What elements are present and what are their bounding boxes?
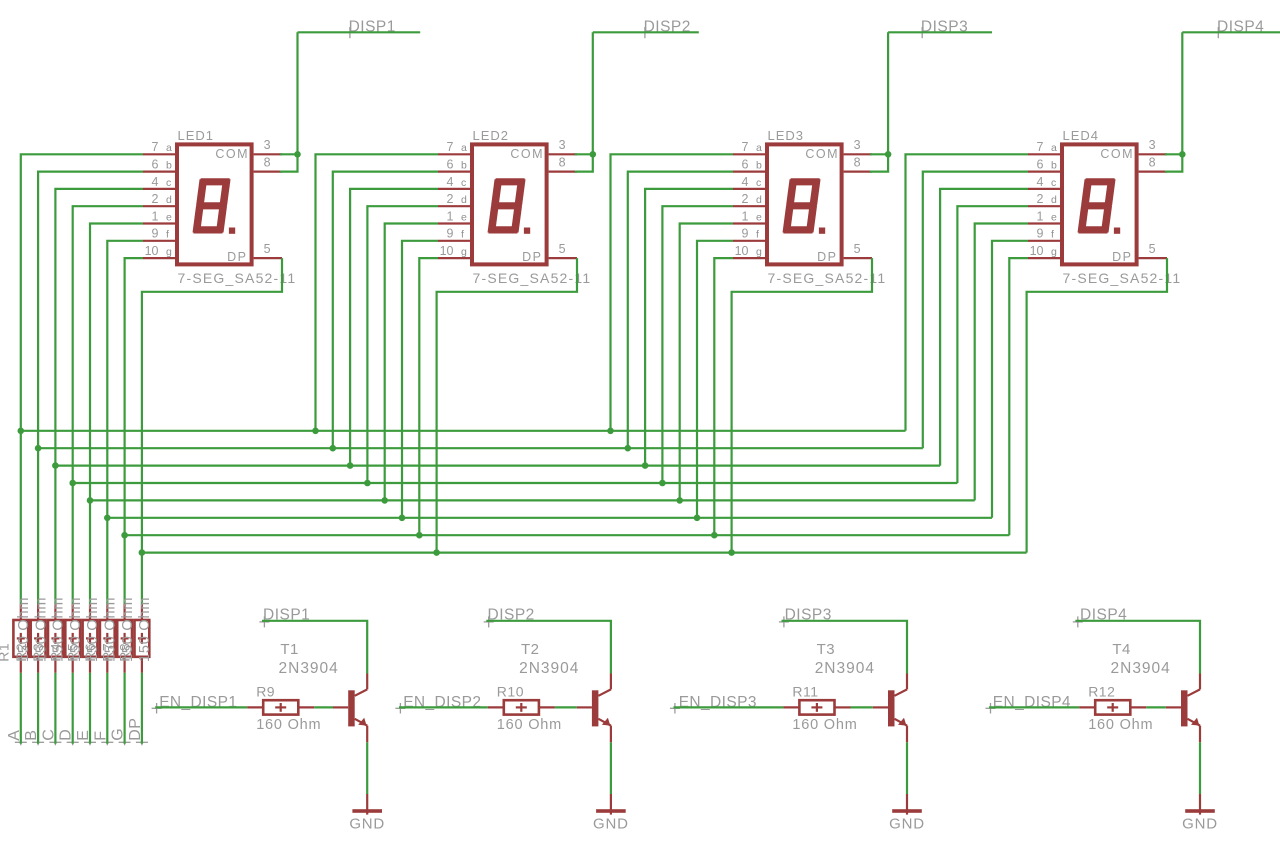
7-segment display LED1 body (7-SEG_SA52-11) (177, 144, 252, 264)
7-segment display LED4 body (7-SEG_SA52-11) (1062, 144, 1137, 264)
svg-text:c: c (461, 177, 466, 189)
wire net C: bus up to LED4 pin c (940, 189, 1028, 466)
svg-text:6: 6 (1037, 158, 1044, 172)
label T3 (817, 641, 836, 658)
svg-text:a: a (461, 142, 467, 154)
svg-text:3: 3 (264, 138, 271, 152)
svg-text:R2: R2 (13, 643, 29, 662)
svg-text:g: g (461, 246, 467, 258)
value 7-SEG_SA52-11 of LED2 (473, 270, 592, 286)
wire net DISP1: LED1 pin 8 up to junction (280, 154, 298, 171)
junction net E at LED2 branch (381, 497, 388, 504)
svg-text:DP: DP (227, 250, 247, 264)
pin name DP of LED4 (1112, 250, 1132, 264)
wire net B: bus up to LED3 pin b (628, 172, 733, 449)
label DISP1 (top net label with origin tick) (349, 18, 396, 38)
LED4 pin 1 (e) (1028, 209, 1060, 223)
wire net DISP3: top horizontal (888, 31, 992, 33)
resistor R9 (160 Ohm) (247, 700, 314, 714)
svg-text:GND: GND (1182, 815, 1218, 832)
junction net G at LED2 branch (416, 532, 423, 539)
svg-text:8: 8 (854, 155, 861, 169)
wire net DISP4: vertical up from junction (1181, 32, 1183, 154)
svg-text:8: 8 (559, 155, 566, 169)
label T1 (280, 641, 299, 658)
LED2 pin 10 (g) (438, 244, 470, 258)
svg-text:LED1: LED1 (178, 128, 215, 143)
junction net C at LED3 branch (642, 462, 649, 469)
LED2 pin 2 (d) (438, 192, 470, 206)
wire net F: horizontal bus line (107, 517, 992, 519)
svg-text:R10: R10 (497, 683, 524, 699)
svg-text:160 Ohm: 160 Ohm (1088, 717, 1153, 733)
wire net G: bus up to LED2 pin g (419, 258, 438, 535)
LED1 pin 2 (d) (143, 192, 175, 206)
svg-text:B: B (23, 730, 40, 741)
LED2 pin 5 (549, 242, 577, 258)
svg-text:C: C (40, 729, 57, 741)
svg-text:R4: R4 (47, 643, 63, 662)
junction net G at LED3 branch (711, 532, 718, 539)
wire net DISP4: top horizontal (1182, 31, 1280, 33)
LED1 pin 10 (g) (143, 244, 175, 258)
wire net D: bus up to LED2 pin d (367, 206, 438, 483)
label DISP3 (top net label with origin tick) (921, 18, 968, 38)
svg-text:F: F (92, 731, 109, 741)
wire net base of T3 (851, 706, 873, 708)
svg-text:DP: DP (1112, 250, 1132, 264)
svg-text:2N3904: 2N3904 (1111, 660, 1171, 677)
svg-text:R5: R5 (65, 643, 81, 662)
svg-text:a: a (166, 142, 172, 154)
ground symbol GND under T4 (1185, 794, 1215, 815)
LED3 pin 5 (844, 242, 872, 258)
wire net G: bus up to LED3 pin g (714, 258, 733, 535)
svg-text:1: 1 (447, 209, 454, 223)
value 7-SEG_SA52-11 of LED1 (178, 270, 297, 286)
wire net base of T2 (555, 706, 577, 708)
wire net DISP1: label to T1 collector (262, 621, 367, 674)
junction net E at left column (87, 497, 94, 504)
wire net D: resistor R4 to net stub (67, 673, 79, 746)
junction net DP at LED2 branch (433, 549, 440, 556)
wire net B: horizontal bus line (38, 447, 923, 449)
label EN_DISP1 (net label with origin cross) (152, 694, 238, 714)
wire net E: resistor R5 to net stub (84, 673, 96, 746)
7-segment display LED3 body (7-SEG_SA52-11) (767, 144, 842, 264)
svg-text:5: 5 (854, 242, 861, 256)
wire net DISP1: top horizontal (298, 31, 421, 33)
LED2 pin 3 (549, 138, 577, 154)
LED3 pin 10 (g) (733, 244, 765, 258)
wire net GND: T4 emitter to ground (1199, 742, 1201, 794)
svg-text:5: 5 (1149, 242, 1156, 256)
svg-text:c: c (166, 177, 171, 189)
resistor R2 (150 Ohm, vertical) (31, 604, 46, 673)
junction net A at LED3 branch (607, 428, 614, 435)
svg-text:7: 7 (742, 140, 749, 154)
svg-text:3: 3 (854, 138, 861, 152)
pin name COM of LED2 (510, 147, 544, 161)
wire net DISP1: vertical up from junction (296, 32, 298, 154)
value 150 Ohm of R3 (rotated) (51, 597, 67, 662)
value 150 Ohm of R4 (rotated) (68, 597, 84, 662)
LED4 pin 9 (f) (1028, 227, 1060, 241)
svg-text:10: 10 (440, 244, 454, 258)
svg-text:b: b (1051, 160, 1057, 172)
label R4 (rotated) (47, 643, 63, 662)
label E (rotated net label) (75, 730, 92, 741)
wire net base of T1 (314, 706, 333, 708)
LED1 pin 4 (c) (143, 175, 175, 189)
wire net A: resistor R1 to net stub (15, 673, 27, 746)
label T4 (1112, 641, 1131, 658)
LED3 pin 7 (a) (733, 140, 765, 154)
label DP (rotated net label) (127, 718, 144, 741)
wire net DP: horizontal bus line (142, 551, 1027, 553)
svg-text:3: 3 (559, 138, 566, 152)
label GND under T4 (1182, 815, 1218, 832)
value 160 Ohm of R11 (792, 717, 857, 733)
junction net E at LED3 branch (676, 497, 683, 504)
pin name COM of LED3 (805, 147, 839, 161)
svg-text:10: 10 (1030, 244, 1044, 258)
LED4 pin 3 (1139, 138, 1167, 154)
wire net C: bus up to LED3 pin c (645, 189, 733, 466)
svg-text:d: d (166, 194, 172, 206)
LED3 pin 8 (844, 155, 872, 171)
transistor T1 (2N3904 NPN) (333, 674, 367, 743)
junction net DISP4 at LED4 COM (1179, 151, 1186, 158)
junction net A at LED2 branch (312, 428, 319, 435)
value 160 Ohm of R10 (497, 717, 562, 733)
svg-text:LED2: LED2 (473, 128, 510, 143)
label DISP4 (top net label with origin tick) (1217, 18, 1264, 38)
LED4 pin 6 (b) (1028, 158, 1060, 172)
wire net G: horizontal bus line (125, 534, 1010, 536)
svg-text:10: 10 (145, 244, 159, 258)
junction net F at left column (104, 515, 111, 522)
transistor T2 (2N3904 NPN) (577, 674, 611, 743)
LED2 pin 7 (a) (438, 140, 470, 154)
wire net F: bus up to LED4 pin f (992, 241, 1028, 518)
label LED4 (part name) (1063, 128, 1100, 143)
LED4 pin 8 (1139, 155, 1167, 171)
wire net DISP3: vertical up from junction (887, 32, 889, 154)
LED4 pin 5 (1139, 242, 1167, 258)
wire net F: bus up to LED3 pin f (697, 241, 733, 518)
wire net DISP1: LED1 pin 3 to junction (280, 153, 298, 155)
svg-text:2: 2 (447, 192, 454, 206)
svg-text:f: f (166, 229, 169, 241)
resistor R3 (150 Ohm, vertical) (48, 604, 63, 673)
LED1 pin 9 (f) (143, 227, 175, 241)
svg-text:d: d (461, 194, 467, 206)
wire net DISP2: vertical up from junction (592, 32, 594, 154)
svg-text:LED4: LED4 (1063, 128, 1100, 143)
wire net D: bus up to LED3 pin d (662, 206, 733, 483)
svg-text:a: a (1051, 142, 1057, 154)
label EN_DISP4 (net label with origin cross) (986, 694, 1071, 714)
label DISP2 (top net label with origin tick) (644, 18, 691, 38)
label EN_DISP3 (net label with origin cross) (670, 694, 757, 714)
value 160 Ohm of R12 (1088, 717, 1153, 733)
junction net D at LED2 branch (364, 480, 371, 487)
svg-text:T3: T3 (817, 641, 836, 658)
wire net E: bus up to LED2 pin e (385, 224, 438, 501)
wire net C: horizontal bus line (55, 465, 940, 467)
svg-text:3: 3 (1149, 138, 1156, 152)
svg-text:G: G (110, 728, 127, 741)
value 7-SEG_SA52-11 of LED3 (768, 270, 887, 286)
svg-text:A: A (6, 730, 23, 741)
wire net GND: T3 emitter to ground (906, 742, 908, 794)
resistor R5 (150 Ohm, vertical) (83, 604, 98, 673)
svg-text:2: 2 (742, 192, 749, 206)
svg-text:150 Ohm: 150 Ohm (137, 597, 153, 662)
label R5 (rotated) (65, 643, 81, 662)
wire net A: bus up to LED4 pin a (906, 154, 1029, 431)
wire net GND: T2 emitter to ground (610, 742, 612, 794)
svg-text:D: D (58, 729, 75, 741)
svg-text:5: 5 (559, 242, 566, 256)
wire net DISP3: LED3 pin 3 to junction (870, 153, 888, 155)
wire net E: bus up to LED3 pin e (680, 224, 733, 501)
svg-text:2: 2 (1037, 192, 1044, 206)
svg-text:R7: R7 (99, 643, 115, 662)
junction net C at left column (52, 462, 59, 469)
pin name COM of LED4 (1100, 147, 1134, 161)
resistor R1 (150 Ohm, vertical) (13, 604, 28, 673)
wire net D: bus up to LED4 pin d (957, 206, 1028, 483)
value 2N3904 of T4 (1111, 660, 1171, 677)
value 2N3904 of T1 (279, 660, 339, 677)
label EN_DISP2 (net label with origin cross) (395, 694, 481, 714)
svg-text:1: 1 (742, 209, 749, 223)
resistor R12 (160 Ohm) (1079, 700, 1146, 714)
label LED2 (part name) (473, 128, 510, 143)
svg-text:8: 8 (1149, 155, 1156, 169)
value 160 Ohm of R9 (256, 717, 321, 733)
svg-text:7-SEG_SA52-11: 7-SEG_SA52-11 (768, 270, 887, 286)
label F (rotated net label) (92, 731, 109, 741)
LED3 pin 4 (c) (733, 175, 765, 189)
label DISP1 (bottom net label with origin cross) (259, 606, 310, 627)
label LED3 (part name) (768, 128, 805, 143)
wire net DISP4: label to T4 collector (1075, 621, 1200, 674)
label G (rotated net label) (110, 728, 127, 741)
junction net G at left column (121, 532, 128, 539)
LED1 pin 1 (e) (143, 209, 175, 223)
svg-text:LED3: LED3 (768, 128, 805, 143)
wire net B: LED1 pin b down column to resistor R2 (38, 172, 143, 604)
wire net C: LED1 pin c down column to resistor R3 (55, 189, 143, 604)
label R2 (rotated) (13, 643, 29, 662)
svg-text:7-SEG_SA52-11: 7-SEG_SA52-11 (1063, 270, 1182, 286)
LED2 pin 6 (b) (438, 158, 470, 172)
resistor R4 (150 Ohm, vertical) (65, 604, 80, 673)
svg-text:COM: COM (215, 147, 249, 161)
wire net DP: LED3 pin 5 down and to bus (732, 258, 872, 552)
junction net DISP2 at LED2 COM (590, 151, 597, 158)
label D (rotated net label) (58, 729, 75, 741)
junction net B at LED2 branch (330, 445, 337, 452)
transistor T3 (2N3904 NPN) (873, 674, 907, 743)
svg-text:T2: T2 (521, 641, 540, 658)
svg-text:b: b (756, 160, 762, 172)
label DISP4 (bottom net label with origin cross) (1073, 606, 1128, 627)
resistor R8 (150 Ohm, vertical) (135, 604, 150, 673)
svg-text:DP: DP (522, 250, 542, 264)
ground symbol GND under T1 (352, 794, 382, 815)
svg-text:f: f (1051, 229, 1054, 241)
LED4 pin 7 (a) (1028, 140, 1060, 154)
label GND under T3 (889, 815, 925, 832)
svg-text:R9: R9 (256, 683, 275, 699)
svg-text:10: 10 (735, 244, 749, 258)
wire net DISP2: LED2 pin 3 to junction (575, 153, 593, 155)
junction net A at left column (18, 428, 25, 435)
label R3 (rotated) (30, 643, 46, 662)
LED3 pin 1 (e) (733, 209, 765, 223)
wire net A: LED1 pin a down column to resistor R1 (21, 154, 143, 604)
label GND under T1 (349, 815, 385, 832)
svg-text:e: e (756, 211, 762, 223)
svg-text:f: f (756, 229, 759, 241)
resistor R7 (150 Ohm, vertical) (117, 604, 132, 673)
resistor R10 (160 Ohm) (488, 700, 555, 714)
svg-text:4: 4 (1037, 175, 1044, 189)
value 150 Ohm of R7 (rotated) (120, 597, 136, 662)
svg-text:T4: T4 (1112, 641, 1131, 658)
svg-text:e: e (166, 211, 172, 223)
LED3 pin 2 (d) (733, 192, 765, 206)
label C (rotated net label) (40, 729, 57, 741)
wire net DP: LED2 pin 5 down and to bus (437, 258, 577, 552)
svg-text:5: 5 (264, 242, 271, 256)
label R10 (497, 683, 524, 699)
LED1 pin 5 (254, 242, 282, 258)
wire net DP: resistor R8 to net stub (136, 673, 148, 746)
svg-text:R8: R8 (117, 643, 133, 662)
wire net A: horizontal bus line (21, 430, 906, 432)
label R8 (rotated) (117, 643, 133, 662)
svg-text:COM: COM (510, 147, 544, 161)
wire net DISP4: LED4 pin 8 up to junction (1165, 154, 1183, 171)
label R9 (256, 683, 275, 699)
wire net F: resistor R6 to net stub (101, 673, 113, 746)
LED2 pin 1 (e) (438, 209, 470, 223)
svg-text:d: d (756, 194, 762, 206)
svg-text:GND: GND (889, 815, 925, 832)
svg-text:160 Ohm: 160 Ohm (792, 717, 857, 733)
junction net D at LED3 branch (659, 480, 666, 487)
svg-text:g: g (166, 246, 172, 258)
svg-text:7-SEG_SA52-11: 7-SEG_SA52-11 (178, 270, 297, 286)
junction net DISP3 at LED3 COM (885, 151, 892, 158)
svg-text:4: 4 (152, 175, 159, 189)
svg-text:7: 7 (447, 140, 454, 154)
svg-text:R11: R11 (792, 683, 818, 699)
value 150 Ohm of R6 (rotated) (103, 597, 119, 662)
LED1 pin 6 (b) (143, 158, 175, 172)
svg-text:b: b (166, 160, 172, 172)
svg-text:e: e (461, 211, 467, 223)
svg-text:9: 9 (1037, 227, 1044, 241)
svg-text:f: f (461, 229, 464, 241)
LED3 pin 9 (f) (733, 227, 765, 241)
svg-text:7: 7 (1037, 140, 1044, 154)
svg-text:COM: COM (805, 147, 839, 161)
wire net GND: T1 emitter to ground (366, 742, 368, 794)
wire net DISP2: top horizontal (593, 31, 699, 33)
value 150 Ohm of R2 (rotated) (33, 597, 49, 662)
resistor R6 (150 Ohm, vertical) (100, 604, 115, 673)
svg-text:GND: GND (593, 815, 629, 832)
wire net D: horizontal bus line (73, 482, 958, 484)
svg-text:COM: COM (1100, 147, 1134, 161)
svg-text:b: b (461, 160, 467, 172)
pin name DP of LED1 (227, 250, 247, 264)
pin name DP of LED2 (522, 250, 542, 264)
value 2N3904 of T3 (815, 660, 875, 677)
wire net DISP3: label to T3 collector (782, 621, 908, 674)
transistor T4 (2N3904 NPN) (1166, 674, 1200, 743)
LED1 pin 3 (254, 138, 282, 154)
svg-text:2N3904: 2N3904 (279, 660, 339, 677)
wire net A: bus up to LED3 pin a (611, 154, 734, 431)
LED3 pin 3 (844, 138, 872, 154)
svg-text:4: 4 (742, 175, 749, 189)
label B (rotated net label) (23, 730, 40, 741)
label R6 (rotated) (82, 643, 98, 662)
label R11 (792, 683, 818, 699)
svg-text:R3: R3 (30, 643, 46, 662)
7-segment display LED2 body (7-SEG_SA52-11) (472, 144, 547, 264)
wire net DISP2: LED2 pin 8 up to junction (575, 154, 593, 171)
label T2 (521, 641, 540, 658)
svg-text:DP: DP (127, 718, 144, 741)
svg-text:c: c (756, 177, 761, 189)
junction net DP at LED3 branch (728, 549, 735, 556)
svg-text:g: g (756, 246, 762, 258)
svg-text:8: 8 (264, 155, 271, 169)
LED4 pin 10 (g) (1028, 244, 1060, 258)
wire net F: LED1 pin f down column to resistor R6 (107, 241, 143, 604)
wire net E: horizontal bus line (90, 499, 975, 501)
ground symbol GND under T2 (596, 794, 626, 815)
LED3 pin 6 (b) (733, 158, 765, 172)
wire net DISP2: label to T2 collector (486, 621, 611, 674)
wire net EN_DISP1: label to resistor R9 (155, 706, 247, 708)
wire net EN_DISP2: label to resistor R10 (399, 706, 488, 708)
svg-text:a: a (756, 142, 762, 154)
wire net EN_DISP4: label to resistor R12 (989, 706, 1079, 708)
wire net B: resistor R2 to net stub (32, 673, 44, 746)
label GND under T2 (593, 815, 629, 832)
svg-text:e: e (1051, 211, 1057, 223)
junction net DISP1 at LED1 COM (294, 151, 301, 158)
value 2N3904 of T2 (519, 660, 579, 677)
svg-text:1: 1 (1037, 209, 1044, 223)
wire net G: LED1 pin g down column to resistor R7 (125, 258, 143, 604)
svg-text:4: 4 (447, 175, 454, 189)
svg-text:g: g (1051, 246, 1057, 258)
svg-text:R1: R1 (0, 643, 12, 662)
label DISP2 (bottom net label with origin cross) (484, 606, 535, 627)
svg-text:d: d (1051, 194, 1057, 206)
svg-text:GND: GND (349, 815, 385, 832)
